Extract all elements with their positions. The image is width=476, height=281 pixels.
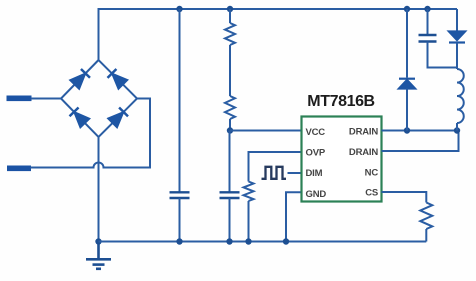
svg-text:VCC: VCC <box>306 127 326 138</box>
svg-text:NC: NC <box>365 168 379 179</box>
wire: GND pin to bottom rail <box>286 192 302 241</box>
wire: CS pin to sense resistor <box>382 192 427 203</box>
wire: C1 to bottom rail <box>179 198 181 242</box>
wire: DRAIN pin 7 riser to switch node <box>382 131 459 152</box>
wire: bottom ground rail <box>99 241 427 243</box>
node: junction dot, top rail / freewheel diode branch <box>404 6 410 12</box>
wire: inductor bottom to switch node <box>456 123 458 131</box>
node: VCC tap junction dot <box>227 127 233 133</box>
wire: freewheel diode branch lower <box>406 89 408 131</box>
bridge rectifier BR1 diamond frame <box>61 60 137 137</box>
wire: bridge bottom vertex down to ground rail <box>98 137 100 242</box>
inductor L1 <box>457 69 464 123</box>
svg-text:DRAIN: DRAIN <box>349 126 378 137</box>
wire: top rail from bridge top to right branch <box>99 9 458 60</box>
svg-text:GND: GND <box>306 189 327 200</box>
svg-text:MT7816B: MT7816B <box>307 93 374 110</box>
node: junction dot, top rail / VCC resistor branch <box>227 6 233 12</box>
wire: upper AC lead to bridge left vertex <box>31 98 61 100</box>
node: junction dot, C1 / bottom rail <box>176 238 182 244</box>
wire: freewheel diode branch upper <box>406 9 408 78</box>
wire: R2 to VCC node <box>229 119 231 131</box>
wire: C2 to bottom rail <box>229 198 231 242</box>
diode D3 (bridge, bottom-left edge) <box>70 107 90 127</box>
wire: filter cap C1 branch from top rail <box>179 9 181 192</box>
svg-text:DRAIN: DRAIN <box>349 147 378 158</box>
IC U1 MT7816B package body <box>302 117 382 202</box>
resistor R1 <box>225 23 235 45</box>
diode D6 (output, cathode down) <box>449 32 465 43</box>
node: junction dot, freewheel diode / drain wire <box>404 127 410 133</box>
wire: R1 to R2 <box>229 45 231 96</box>
capacitor C1 <box>170 192 190 198</box>
PWM dimming square-wave symbol <box>262 167 287 179</box>
diode D1 (bridge, top-left edge) <box>70 69 90 89</box>
node: junction dot, GND / bottom rail <box>283 238 289 244</box>
resistor R3 (OVP divider) <box>244 182 254 202</box>
diode D2 (bridge, top-right edge) <box>107 69 127 89</box>
wire: DIM pin stub <box>288 172 302 174</box>
resistor R2 <box>225 96 235 119</box>
ground symbol <box>86 242 111 269</box>
resistor R4 (current sense) <box>420 203 432 230</box>
svg-text:DIM: DIM <box>306 168 323 179</box>
svg-text:CS: CS <box>365 187 378 198</box>
wire: top rail corner down to D6 <box>456 9 458 32</box>
node: junction dot, bottom rail at bridge negative <box>95 238 101 244</box>
node: junction dot, C2 / bottom rail <box>226 238 232 244</box>
diode D5 (freewheel, cathode up) <box>399 79 415 89</box>
wire: R4 to bottom rail <box>425 229 427 242</box>
node: junction dot, inductor / drain wire <box>454 127 460 133</box>
AC input terminal (lower) <box>8 166 31 171</box>
wire: lower AC lead with hop over bridge-negative wire, to bridge right vertex <box>31 99 151 168</box>
AC input terminal (upper) <box>7 96 31 101</box>
wire: DRAIN pin 8 to switch node <box>382 130 458 132</box>
capacitor C2 <box>220 192 240 198</box>
diode D4 (bridge, bottom-right edge) <box>108 107 128 127</box>
wire: D6 to inductor top <box>456 43 458 70</box>
capacitor C3 (snubber) <box>419 35 437 42</box>
wire: OVP pin to divider resistor <box>249 152 302 182</box>
wire: snubber cap branch from top rail <box>427 9 429 34</box>
node: junction dot, R3 / bottom rail <box>245 238 251 244</box>
svg-text:OVP: OVP <box>306 147 326 158</box>
node: junction dot, top rail / snubber cap branch <box>424 6 430 12</box>
wire: R3 to bottom rail <box>248 201 250 242</box>
wire: C3 bottom over to diode/inductor node <box>428 42 458 68</box>
wire: VCC dropper branch from top rail <box>229 9 231 23</box>
wire: VCC node down to C2 <box>229 131 231 193</box>
wire: VCC node to VCC pin <box>230 130 302 132</box>
node: junction dot, top rail / filter-cap branch <box>176 6 182 12</box>
